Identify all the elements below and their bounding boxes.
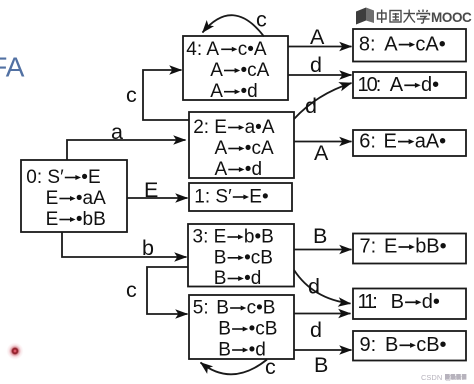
state 2 line 2: item text xyxy=(215,138,274,159)
MOOC logo icon xyxy=(356,8,374,25)
svg-text:•d: •d xyxy=(249,340,266,361)
svg-text:d•: d• xyxy=(422,291,440,313)
state box 4 xyxy=(183,36,288,100)
svg-text:A: A xyxy=(210,60,223,81)
svg-text:E: E xyxy=(384,130,397,152)
svg-text:b•B: b•B xyxy=(244,227,274,248)
state 9 line: item text xyxy=(360,334,447,356)
svg-text:c: c xyxy=(256,8,267,32)
state 10 line: item text xyxy=(358,74,440,96)
state 2 line 1: item text xyxy=(193,117,275,138)
state 0 line 3: item text xyxy=(46,209,106,230)
svg-text:•cA: •cA xyxy=(241,60,270,81)
svg-text:c•B: c•B xyxy=(247,298,276,319)
state 4 line 3: item text xyxy=(210,81,258,102)
svg-text:•d: •d xyxy=(241,81,258,102)
transition A: 2 to 6 xyxy=(294,141,352,143)
svg-text:B: B xyxy=(218,340,231,361)
transition c: self loop on 4 xyxy=(203,15,265,36)
svg-text:7:: 7: xyxy=(360,236,377,258)
state 3 line 1: item text xyxy=(193,227,274,248)
transition d: 3 to 11 (curved) xyxy=(294,270,351,304)
transition a: 0 to 2 xyxy=(67,140,186,160)
state 1 line 1: item text xyxy=(194,187,268,208)
svg-text:B: B xyxy=(391,291,404,313)
state 6 line: item text xyxy=(359,130,446,152)
MOOC logo hanzi da xyxy=(404,10,416,23)
MOOC logo hanzi guo xyxy=(390,11,401,23)
state 2 line 3: item text xyxy=(215,159,263,180)
state box 8 xyxy=(353,29,466,62)
svg-text:B: B xyxy=(385,334,398,356)
svg-text:4: A: 4: A xyxy=(186,39,219,60)
svg-text:B: B xyxy=(214,247,227,268)
svg-text:A: A xyxy=(384,33,398,55)
svg-text:MOOC: MOOC xyxy=(431,10,472,25)
svg-text:B: B xyxy=(214,268,227,289)
state 4 line 1: item text xyxy=(186,39,267,60)
transition A: 4 to 8 xyxy=(288,46,352,48)
svg-text:E: E xyxy=(144,178,158,202)
svg-text:A: A xyxy=(310,25,325,49)
svg-text:B: B xyxy=(313,224,327,248)
transition B: 3 to 7 xyxy=(294,249,352,251)
state 0 line 2: item text xyxy=(46,188,107,209)
transition c: 2 to 4 xyxy=(143,70,189,120)
transition B: 5 to 9 xyxy=(294,349,352,351)
state box 11 xyxy=(353,289,466,320)
svg-text:d: d xyxy=(310,53,322,77)
svg-text:6:: 6: xyxy=(359,130,376,152)
state box 10 xyxy=(353,72,466,98)
svg-text:c•A: c•A xyxy=(238,39,267,60)
state box 6 xyxy=(353,130,466,156)
svg-text:B: B xyxy=(218,319,231,340)
svg-text:3: E: 3: E xyxy=(193,227,227,248)
svg-text:5:: 5: xyxy=(193,298,209,319)
MOOC logo hanzi xue xyxy=(417,10,430,24)
svg-text:b: b xyxy=(142,236,154,260)
svg-text:aA•: aA• xyxy=(415,130,446,152)
svg-text:cA•: cA• xyxy=(415,33,445,55)
svg-text:9:: 9: xyxy=(360,334,377,356)
svg-text:A: A xyxy=(210,81,223,102)
transition E: 0 to 1 xyxy=(127,197,188,199)
svg-text:A: A xyxy=(215,138,228,159)
transition d: 2 to 10 (curved) xyxy=(294,83,352,119)
svg-text:10:: 10: xyxy=(358,74,380,96)
state 5 line 3: item text xyxy=(218,340,266,361)
svg-text:cB•: cB• xyxy=(416,334,446,356)
state 11 line: item text xyxy=(358,291,440,313)
state box 2 xyxy=(189,112,294,178)
svg-text:d: d xyxy=(305,94,317,118)
svg-text:B: B xyxy=(314,353,328,377)
svg-text:B: B xyxy=(216,298,229,319)
svg-text:c: c xyxy=(126,83,137,107)
state 5 line 2: item text xyxy=(218,319,277,340)
state box 9 xyxy=(353,331,466,361)
svg-text:A: A xyxy=(314,141,329,165)
svg-text:A: A xyxy=(390,74,404,96)
svg-text:•bB: •bB xyxy=(76,209,106,230)
transition d: 4 to 10 xyxy=(288,74,352,76)
svg-text:0: S′: 0: S′ xyxy=(26,167,64,188)
state 8 line: item text xyxy=(359,33,446,55)
svg-text:FA: FA xyxy=(0,52,25,83)
svg-text:•E: •E xyxy=(81,167,100,188)
svg-text:d: d xyxy=(310,318,322,342)
svg-text:•cB: •cB xyxy=(244,247,273,268)
svg-text:8:: 8: xyxy=(359,33,376,55)
svg-text:11:: 11: xyxy=(358,291,377,313)
svg-text:d•: d• xyxy=(421,74,439,96)
svg-text:a•A: a•A xyxy=(245,117,275,138)
laser pointer red dot xyxy=(6,342,24,360)
svg-text:•cB: •cB xyxy=(249,319,278,340)
svg-text:E: E xyxy=(46,209,59,230)
svg-text:a: a xyxy=(111,120,123,144)
state box 0 xyxy=(21,160,127,232)
svg-text:•cA: •cA xyxy=(245,138,274,159)
svg-text:c: c xyxy=(126,278,137,302)
svg-text:A: A xyxy=(215,159,228,180)
svg-text:E: E xyxy=(384,236,397,258)
transition d: 5 to 11 xyxy=(294,313,351,315)
svg-text:E: E xyxy=(46,188,59,209)
svg-text:d: d xyxy=(308,275,320,299)
state box 3 xyxy=(188,224,294,287)
svg-text:•aA: •aA xyxy=(76,188,106,209)
state box 1 xyxy=(189,183,292,211)
svg-text:E•: E• xyxy=(249,187,268,208)
svg-text:•d: •d xyxy=(244,268,261,289)
MOOC logo hanzi zhong xyxy=(378,10,387,24)
state 4 line 2: item text xyxy=(210,60,269,81)
svg-text:c: c xyxy=(265,355,276,379)
state 5 line 1: item text xyxy=(193,298,276,319)
transition c: self loop on 5 xyxy=(201,360,268,375)
svg-text:•d: •d xyxy=(245,159,262,180)
svg-text:1: S′: 1: S′ xyxy=(194,187,232,208)
transition b: 0 to 3 xyxy=(62,232,187,257)
state 3 line 2: item text xyxy=(214,247,273,268)
svg-text:2: E: 2: E xyxy=(193,117,227,138)
state 7 line: item text xyxy=(360,236,447,258)
state box 5 xyxy=(189,295,294,359)
state 3 line 3: item text xyxy=(214,268,262,289)
transition c: 3 to 5 xyxy=(147,267,188,314)
state box 7 xyxy=(353,234,466,264)
svg-text:bB•: bB• xyxy=(415,236,446,258)
state 0 line 1: item text xyxy=(26,167,100,188)
